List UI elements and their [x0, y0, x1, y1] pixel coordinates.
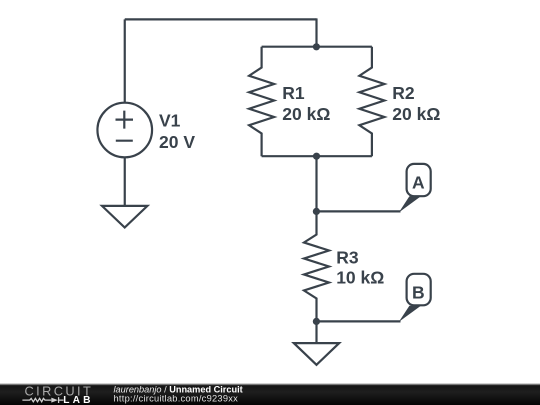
wire parallel bottom rail [262, 155, 372, 157]
footer bar [0, 383, 540, 405]
junction node dot B [313, 318, 320, 325]
svg-text:20 kΩ: 20 kΩ [282, 104, 330, 124]
wire vertical down to parallel top rail [315, 18, 317, 46]
svg-text:R2: R2 [392, 83, 415, 103]
resistor R2 [359, 47, 384, 157]
ground symbol under V1 [102, 206, 147, 228]
terminal A box [407, 164, 431, 196]
voltage source V1 circle [97, 103, 152, 158]
svg-text:B: B [412, 282, 425, 302]
ground symbol under R3 [294, 343, 339, 365]
svg-text:R3: R3 [336, 247, 359, 267]
terminal A flag [399, 196, 421, 212]
terminal B box [407, 274, 431, 306]
svg-text:LAB: LAB [63, 395, 94, 405]
resistor R3 [304, 211, 329, 321]
wire V1 bottom lead [124, 157, 126, 206]
wire from bottom rail down to node A junction [315, 156, 317, 211]
terminal B flag [399, 306, 421, 322]
svg-text:20 V: 20 V [159, 132, 195, 152]
junction node dot A [313, 208, 320, 215]
CircuitLab logo resistor zigzag and diode [22, 397, 63, 403]
CircuitLab logo diode triangle [51, 398, 58, 403]
svg-text:R1: R1 [282, 83, 305, 103]
wire from node B down to ground [315, 321, 317, 343]
wire node B horizontal to terminal B [317, 320, 401, 322]
wire top horizontal from V1 to node [125, 18, 317, 20]
svg-text:http://circuitlab.com/c9239xx: http://circuitlab.com/c9239xx [114, 394, 239, 404]
svg-text:20 kΩ: 20 kΩ [392, 104, 440, 124]
V1 plus sign [116, 111, 134, 129]
wire parallel top rail [262, 46, 372, 48]
wire V1 top lead [124, 19, 126, 102]
resistor R1 [249, 47, 274, 157]
junction node dot top of parallel [313, 43, 320, 50]
wire node A horizontal to terminal A [317, 210, 401, 212]
svg-text:10 kΩ: 10 kΩ [336, 267, 384, 287]
svg-text:A: A [412, 173, 425, 193]
svg-text:V1: V1 [159, 111, 181, 131]
junction node dot bottom of parallel [313, 153, 320, 160]
V1 minus sign [116, 140, 133, 142]
